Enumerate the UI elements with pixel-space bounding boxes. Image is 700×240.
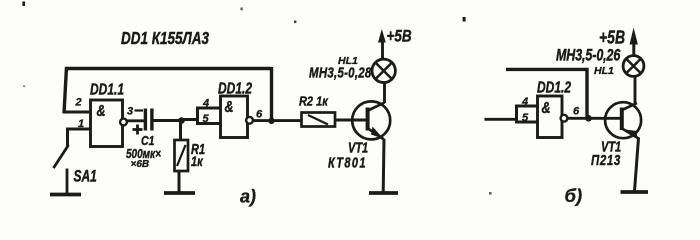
wire pin 5: [196, 122, 220, 125]
speck near top label: [241, 8, 243, 11]
label C1 value line1: [126, 148, 161, 161]
label +5V (b): [599, 26, 625, 48]
svg-text:&: &: [542, 99, 551, 117]
wire feedback right vertical: [270, 67, 273, 121]
svg-text:SA1: SA1: [74, 168, 97, 186]
label MN3.5-0.28: [309, 64, 372, 81]
svg-text:6: 6: [256, 109, 263, 121]
wire node A to DD1.2 inputs: [182, 118, 199, 121]
label DD1.2 (b): [537, 78, 571, 96]
speck mid-top: [463, 17, 466, 22]
switch SA1 blade: [54, 145, 69, 168]
label C1 value line2: [131, 159, 150, 170]
pin 6 label: [256, 109, 263, 121]
label R1 value: [191, 154, 203, 169]
label a): [240, 187, 256, 207]
svg-text:5: 5: [522, 112, 529, 124]
speck top-left: [22, 2, 25, 7]
label C1: [141, 135, 154, 148]
wire lamp to +5V arrow: [381, 41, 384, 60]
label R2 value: [299, 94, 329, 109]
svg-text:+5В: +5В: [387, 27, 412, 46]
DD1.2 input bar: [196, 107, 199, 126]
wire C1 to node A: [154, 119, 182, 122]
resistor R1: [175, 140, 189, 171]
svg-text:+5В: +5В: [599, 26, 625, 48]
pin 6 label (b): [573, 106, 580, 118]
transistor VT1: [352, 101, 390, 139]
svg-text:МН3,5-0,28: МН3,5-0,28: [309, 64, 372, 81]
wire emitter to ground: [382, 139, 386, 192]
pin 2 label: [75, 97, 82, 109]
wire emitter to ground (b): [635, 138, 639, 191]
wire pin 6 to base (b): [568, 117, 621, 120]
svg-text:C1: C1: [141, 135, 154, 148]
wire SA1 contact to ground: [66, 169, 69, 195]
svg-text:1к: 1к: [191, 154, 203, 169]
transistor VT1 (b): [605, 102, 641, 139]
resistor R2: [302, 113, 336, 127]
svg-text:б): б): [565, 185, 583, 206]
wire pin 4: [196, 107, 220, 110]
wire pin 6 to R2: [253, 119, 301, 122]
wire collector to lamp (b): [634, 76, 637, 104]
label MN3.5-0.26: [556, 47, 621, 65]
gate DD1.2 (b): [538, 96, 568, 138]
+5V arrow: [378, 29, 386, 43]
svg-text:4: 4: [202, 98, 209, 110]
wire pin 1: [68, 129, 91, 146]
label P213: [591, 152, 621, 169]
svg-text:HL1: HL1: [594, 65, 614, 77]
lamp HL1: [372, 59, 395, 82]
wire node A down to R1: [179, 121, 182, 141]
svg-text:&: &: [225, 98, 234, 116]
svg-text:DD1.2: DD1.2: [537, 78, 571, 96]
label VT1: [348, 139, 368, 156]
svg-text:КТ801: КТ801: [328, 154, 367, 171]
label HL1 (b): [594, 65, 614, 77]
ground (SA1): [50, 193, 81, 197]
node C junction: [585, 115, 592, 122]
node B junction: [268, 118, 274, 124]
ground (VT1): [369, 191, 398, 195]
+5V arrow (b): [630, 28, 638, 45]
wire input stub (b): [485, 118, 518, 121]
label b): [565, 185, 583, 206]
DD1.2b input bar: [515, 105, 518, 124]
svg-text:МН3,5-0,26: МН3,5-0,26: [556, 47, 621, 65]
wire pin 5 (b): [515, 121, 538, 124]
wire feedback top (b): [506, 69, 587, 118]
svg-text:6: 6: [573, 106, 580, 118]
wire pin 2: [64, 111, 91, 114]
svg-text:3: 3: [127, 106, 133, 118]
speck left of R2: [294, 21, 296, 24]
speck bottom middle: [489, 192, 492, 195]
wire feedback left vertical: [64, 67, 67, 114]
faint speck left: [23, 85, 25, 87]
label SA1: [74, 168, 97, 186]
gate DD1.2: [221, 96, 253, 138]
wire feedback top: [66, 67, 272, 71]
svg-text:DD1.2: DD1.2: [218, 79, 252, 97]
ground (VT1 b): [621, 190, 649, 194]
C1 polarity +: [133, 125, 143, 135]
svg-text:П213: П213: [591, 152, 621, 169]
pin 4 label: [202, 98, 209, 110]
capacitor C1: [144, 109, 154, 131]
label DD1.1: [90, 80, 124, 98]
svg-text:&: &: [97, 102, 106, 120]
label DD1 K155LA3: [121, 29, 209, 48]
svg-text:4: 4: [521, 96, 528, 108]
wire collector to lamp: [383, 83, 386, 104]
ground (R1): [164, 191, 195, 195]
label DD1.2: [218, 79, 252, 97]
svg-text:DD1.1: DD1.1: [90, 80, 124, 98]
label VT1 (b): [601, 138, 621, 155]
lamp HL1 (b): [623, 56, 644, 77]
pin 1 label: [78, 118, 84, 130]
label R1: [191, 141, 205, 158]
pin 4 label (b): [521, 96, 528, 108]
pin 5 label: [203, 113, 210, 125]
node A junction: [178, 117, 185, 124]
svg-text:а): а): [240, 187, 256, 207]
wire pin 4 (b): [515, 105, 538, 108]
svg-text:2: 2: [75, 97, 82, 109]
pin 5 label (b): [522, 112, 529, 124]
label KT801: [328, 154, 367, 171]
svg-text:×6В: ×6В: [131, 159, 150, 170]
wire lamp to +5V arrow (b): [632, 42, 635, 56]
wire R2 to VT1 base: [335, 119, 366, 122]
svg-text:5: 5: [203, 113, 210, 125]
wire pin 3 to C1: [127, 119, 145, 122]
pin 3 label: [127, 106, 143, 118]
gate DD1.1: [91, 100, 127, 147]
svg-text:R2 1к: R2 1к: [299, 94, 329, 109]
wire R1 to ground: [178, 171, 181, 192]
label HL1: [338, 55, 358, 67]
label +5V (a): [387, 27, 412, 46]
svg-text:DD1 К155ЛА3: DD1 К155ЛА3: [121, 29, 209, 48]
